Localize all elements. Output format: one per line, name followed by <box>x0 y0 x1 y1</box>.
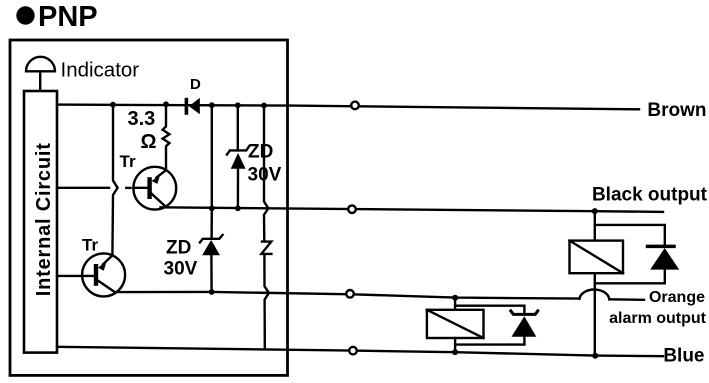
svg-text:Tr: Tr <box>120 152 136 171</box>
wire: +V top rail (Brown line) <box>57 105 639 110</box>
wire hop: orange line over relay 1 lead <box>580 290 610 300</box>
zener ZD2 anode triangle <box>202 240 220 255</box>
svg-text:Indicator: Indicator <box>61 59 140 82</box>
wire: rail to zener ZD1 at x238 <box>237 105 239 150</box>
wire: relay load 2 to blue line <box>454 338 456 352</box>
wire: ZD2 to orange line <box>210 255 213 292</box>
junction: rail / resistor branch <box>163 101 169 107</box>
outer enclosure box <box>10 40 288 375</box>
relay load 2 box <box>427 310 484 338</box>
junction: rail / surge element branch <box>261 103 267 109</box>
wire: orange alarm line <box>115 292 580 299</box>
junction: x238 / black line <box>235 205 241 211</box>
svg-text:3.3: 3.3 <box>128 108 156 130</box>
wire: flyback diode 2 top branch <box>455 306 524 313</box>
terminal: brown lead <box>351 102 359 110</box>
wire: rail to Tr2 emitter with hop over Tr1 base wire <box>112 105 117 256</box>
wire: relay load 1 to blue line <box>594 273 596 356</box>
wire: flyback diode 2 bottom branch <box>455 337 524 345</box>
wire: black line down to zener ZD2 <box>210 208 213 238</box>
wire: rail down x264 with hop over black line <box>264 105 268 241</box>
zener ZD1 anode triangle <box>231 153 246 169</box>
svg-text:D: D <box>190 76 201 93</box>
surge element Z <box>261 242 271 254</box>
wire: ZD1 to black line <box>237 169 240 209</box>
wire: flyback diode 1 bottom branch <box>595 269 665 283</box>
junction: rail / Tr2 emitter branch <box>110 102 116 108</box>
junction: rail / ZD2 branch <box>209 102 215 108</box>
transistor Tr1 (upper PNP) <box>133 167 176 210</box>
indicator lamp <box>26 57 55 91</box>
svg-text:30V: 30V <box>164 259 198 280</box>
terminal: black lead <box>348 205 356 213</box>
svg-text:PNP: PNP <box>38 1 98 33</box>
wire: orange line right segment <box>609 298 644 301</box>
diode D cathode bar <box>185 98 189 115</box>
zener ZD1 cathode bar <box>227 146 249 154</box>
junction: orange line / relay load 2 <box>452 295 458 301</box>
junction: relay load 1 / blue line <box>592 353 598 359</box>
wire: blue 0V line <box>57 347 663 356</box>
flyback diode 2 cathode bar <box>511 311 538 315</box>
junction: black line / relay load 1 <box>592 208 598 214</box>
resistor 3.3 ohm <box>163 104 170 170</box>
svg-text:Tr: Tr <box>82 236 98 255</box>
zener ZD2 cathode bar <box>200 235 223 243</box>
svg-text:ZD: ZD <box>248 142 273 163</box>
flyback diode 1 cathode bar <box>648 245 675 249</box>
relay load 2 diagonal <box>427 310 484 338</box>
junction: rail / ZD1 branch <box>235 102 241 108</box>
terminal: blue lead <box>349 347 357 355</box>
svg-text:ZD: ZD <box>166 238 191 259</box>
svg-text:alarm output: alarm output <box>609 310 707 327</box>
wire: Tr1 base from internal circuit <box>57 187 109 189</box>
wire: Tr1 base stub <box>126 187 130 189</box>
wire: black line to relay load 1 <box>594 211 596 241</box>
junction: relay load 2 / blue line <box>452 349 458 355</box>
wire: flyback diode 1 top branch <box>595 225 665 246</box>
flyback diode 1 anode triangle <box>650 248 679 270</box>
junction: x212 / black line <box>209 205 215 211</box>
relay load 1 box <box>570 241 624 274</box>
svg-text:Brown: Brown <box>647 100 706 121</box>
flyback diode 2 anode triangle <box>512 316 537 337</box>
wire: surge element down with hop over orange line to blue line <box>264 254 269 347</box>
junction: x212 / orange line <box>209 289 215 295</box>
title bullet <box>16 6 34 24</box>
diode D anode triangle <box>189 98 200 115</box>
internal circuit block <box>24 91 57 353</box>
svg-text:Orange: Orange <box>649 289 705 306</box>
svg-text:Ω: Ω <box>141 131 157 153</box>
wire: orange line to relay load 2 <box>454 298 456 310</box>
svg-text:Black output: Black output <box>592 185 708 206</box>
wire: rail to black line at x212 <box>211 105 213 208</box>
terminal: orange lead <box>346 290 354 298</box>
svg-text:Blue: Blue <box>663 346 704 367</box>
relay load 1 diagonal <box>570 241 624 274</box>
svg-text:Internal Circuit: Internal Circuit <box>33 142 55 296</box>
wire: black output line <box>161 207 664 212</box>
transistor Tr2 (lower PNP) <box>57 253 125 296</box>
